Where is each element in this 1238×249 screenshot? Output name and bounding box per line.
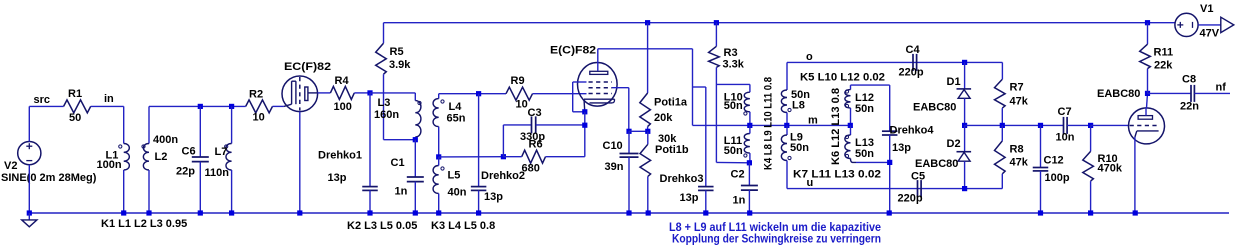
inductor L8 xyxy=(786,62,788,90)
ground (rotated) xyxy=(1221,17,1234,32)
potentiometer Poti1a xyxy=(645,20,650,25)
svg-text:src: src xyxy=(34,94,51,106)
svg-text:Drehko3: Drehko3 xyxy=(660,173,704,185)
svg-text:R2: R2 xyxy=(249,89,263,101)
inductor L11 xyxy=(744,134,750,154)
svg-text:R11: R11 xyxy=(1154,47,1174,59)
capacitor C6 xyxy=(198,104,203,109)
svg-text:20k: 20k xyxy=(654,112,673,124)
svg-text:L4: L4 xyxy=(449,101,463,113)
wire screen g2 to C10 xyxy=(612,87,629,89)
svg-text:220p: 220p xyxy=(898,193,923,205)
svg-text:39n: 39n xyxy=(605,161,624,173)
svg-text:C5: C5 xyxy=(911,171,925,183)
svg-text:nf: nf xyxy=(1216,82,1227,94)
svg-text:C7: C7 xyxy=(1058,106,1072,118)
capacitor C8 xyxy=(1148,92,1192,94)
svg-text:10: 10 xyxy=(253,112,265,124)
node nf xyxy=(1145,91,1150,96)
svg-text:1n: 1n xyxy=(395,186,408,198)
svg-text:K6 L12 L13 0.8: K6 L12 L13 0.8 xyxy=(830,88,842,165)
svg-text:m: m xyxy=(808,115,818,127)
svg-text:C3: C3 xyxy=(528,107,542,119)
svg-text:3.3k: 3.3k xyxy=(723,59,745,71)
capacitor C1 xyxy=(414,140,416,177)
svg-text:C12: C12 xyxy=(1044,155,1064,167)
resistor R1 xyxy=(64,100,91,113)
inductor L10 xyxy=(749,84,751,92)
svg-text:220p: 220p xyxy=(899,67,924,79)
wire to poti wiper xyxy=(629,130,648,132)
svg-text:in: in xyxy=(104,93,114,105)
svg-text:50n: 50n xyxy=(724,100,743,112)
resistor R10 xyxy=(1088,123,1093,128)
svg-text:13p: 13p xyxy=(680,192,699,204)
wire L13 bottom to Drehko4 xyxy=(851,159,857,163)
node L4-L5 tap xyxy=(436,154,441,159)
wire tube3 cathode to ground xyxy=(1134,137,1136,213)
svg-text:K2 L3 L5 0.05: K2 L3 L5 0.05 xyxy=(347,220,417,232)
potentiometer Poti1b xyxy=(647,131,649,144)
wire to L11 bottom xyxy=(716,161,749,163)
variable capacitor Drehko1 xyxy=(369,93,371,187)
node R6/C3 left xyxy=(501,154,506,159)
wire R9 to tube2 grid xyxy=(533,93,587,95)
tube3 plate wire xyxy=(1145,108,1147,116)
o line xyxy=(787,61,1002,63)
source V2 xyxy=(18,142,41,165)
svg-text:L7: L7 xyxy=(215,146,228,158)
node D2/u xyxy=(962,186,967,191)
svg-text:V2: V2 xyxy=(4,160,17,172)
resistor R4 xyxy=(330,86,354,99)
inductor L3 xyxy=(414,93,416,101)
svg-text:C10: C10 xyxy=(603,140,623,152)
svg-text:R1: R1 xyxy=(68,88,82,100)
node L11 bottom / C2 xyxy=(747,160,752,165)
svg-text:K1 L1 L2 L3 0.95: K1 L1 L2 L3 0.95 xyxy=(101,218,187,230)
resistor R2 xyxy=(246,100,273,113)
svg-text:C8: C8 xyxy=(1182,74,1196,86)
svg-text:Drehko2: Drehko2 xyxy=(481,170,525,182)
svg-text:50n: 50n xyxy=(855,103,874,115)
resistor R7 xyxy=(995,79,1006,108)
svg-text:R4: R4 xyxy=(335,75,350,87)
variable capacitor Drehko2 xyxy=(476,91,481,96)
wire cathode down to R6/C3 xyxy=(584,112,586,157)
svg-text:100n: 100n xyxy=(97,159,122,171)
wire R2 to tube xyxy=(273,105,284,107)
u line xyxy=(787,188,1002,190)
capacitor C10 xyxy=(628,131,630,153)
svg-text:R3: R3 xyxy=(724,47,738,59)
variable capacitor Drehko4 xyxy=(889,85,891,131)
svg-text:3.9k: 3.9k xyxy=(389,59,411,71)
svg-text:C2: C2 xyxy=(731,169,745,181)
node screen/C10 xyxy=(626,129,631,134)
svg-text:50: 50 xyxy=(69,112,81,124)
svg-text:R8: R8 xyxy=(1010,144,1024,156)
inductor L4 xyxy=(438,94,440,99)
svg-text:SINE(0 2m 28Meg): SINE(0 2m 28Meg) xyxy=(1,172,97,184)
svg-text:K4 L8 L9 L10 L11 0.8: K4 L8 L9 L10 L11 0.8 xyxy=(763,77,775,170)
resistor R5 xyxy=(383,23,385,44)
svg-text:L5: L5 xyxy=(448,170,461,182)
wire plate to R4 xyxy=(318,92,331,94)
svg-text:22k: 22k xyxy=(1154,60,1173,72)
svg-text:110n: 110n xyxy=(205,167,230,179)
wire tank2 top xyxy=(439,93,506,95)
svg-text:EABC80: EABC80 xyxy=(1097,88,1140,100)
inductor L5 xyxy=(433,166,439,194)
inductor L7 xyxy=(229,104,234,109)
svg-text:o: o xyxy=(806,51,813,63)
svg-text:L8: L8 xyxy=(792,100,805,112)
wire R5 bottom to L3 bottom xyxy=(384,139,416,141)
svg-text:47k: 47k xyxy=(1010,96,1029,108)
wire V2 bottom xyxy=(28,165,30,213)
svg-text:47k: 47k xyxy=(1010,157,1029,169)
diode D2 xyxy=(964,125,966,151)
svg-text:EABC80: EABC80 xyxy=(915,158,958,170)
svg-text:13p: 13p xyxy=(328,172,347,184)
node cathode2 xyxy=(582,109,587,114)
svg-text:100: 100 xyxy=(334,101,352,113)
svg-text:EC(F)82: EC(F)82 xyxy=(284,61,331,73)
svg-text:V1: V1 xyxy=(1200,3,1213,15)
wire grid tube3 xyxy=(1091,124,1129,126)
variable capacitor Drehko3 xyxy=(693,86,706,88)
resistor R6 xyxy=(522,150,546,163)
svg-text:470k: 470k xyxy=(1098,163,1123,175)
wire V1 right to ground xyxy=(1198,24,1221,26)
inductor L13 xyxy=(850,125,852,135)
svg-text:100p: 100p xyxy=(1045,172,1070,184)
svg-text:50n: 50n xyxy=(790,142,809,154)
svg-text:D2: D2 xyxy=(947,138,961,150)
svg-text:L2: L2 xyxy=(155,151,168,163)
svg-text:10n: 10n xyxy=(1056,131,1075,143)
svg-text:13p: 13p xyxy=(484,191,503,203)
node wiper xyxy=(645,129,650,134)
svg-text:Drehko1: Drehko1 xyxy=(318,150,362,162)
resistor R11 xyxy=(1145,20,1150,25)
capacitor C3 xyxy=(502,125,504,157)
svg-text:400n: 400n xyxy=(153,134,178,146)
capacitor C7 xyxy=(1063,117,1065,134)
node D1/D2 xyxy=(962,123,967,128)
svg-text:R5: R5 xyxy=(390,46,404,58)
node L8/L9 tap xyxy=(784,123,789,128)
capacitor C2 xyxy=(748,163,750,186)
wire R4 to node xyxy=(354,92,370,94)
svg-text:E(C)F82: E(C)F82 xyxy=(550,45,596,57)
wire tap to R6/C3 xyxy=(439,156,504,158)
svg-text:Kopplung der Schwingkreise zu: Kopplung der Schwingkreise zu verringern xyxy=(672,232,881,246)
m line from plate xyxy=(693,124,851,126)
wire V2 top to R1 xyxy=(28,106,30,141)
node R7/R8 xyxy=(1000,123,1005,128)
tube2 cathode xyxy=(584,98,615,100)
inductor L2 xyxy=(148,106,150,143)
svg-text:10: 10 xyxy=(516,99,528,111)
svg-text:Poti1b: Poti1b xyxy=(655,144,689,156)
svg-text:50n: 50n xyxy=(855,148,874,160)
svg-text:L3: L3 xyxy=(378,97,391,109)
svg-text:13p: 13p xyxy=(892,142,911,154)
inductor L12 xyxy=(850,85,852,90)
resistor R3 xyxy=(714,20,719,25)
node tank2 tap (m end) xyxy=(848,123,853,128)
svg-text:Drehko4: Drehko4 xyxy=(890,125,935,137)
svg-text:R7: R7 xyxy=(1010,82,1024,94)
wire g3 to cathode xyxy=(573,81,587,83)
node Drehko4/L13 xyxy=(887,160,892,165)
m line right part xyxy=(965,124,1064,126)
svg-text:K7 L11 L13 0.02: K7 L11 L13 0.02 xyxy=(793,169,881,181)
svg-text:Poti1a: Poti1a xyxy=(654,97,688,109)
triode U1 EC(F)82 xyxy=(282,76,318,112)
svg-text:C6: C6 xyxy=(182,146,196,158)
pentode U2 E(C)F82 xyxy=(578,63,618,107)
triode U3 EABC80 xyxy=(1129,108,1165,144)
svg-text:22n: 22n xyxy=(1180,101,1199,113)
bottom ground rail xyxy=(29,212,1229,214)
resistor R8 xyxy=(995,141,1006,174)
svg-text:50n: 50n xyxy=(724,145,743,157)
tube2 grid rows xyxy=(589,81,613,83)
svg-text:47V: 47V xyxy=(1200,28,1220,40)
svg-text:D1: D1 xyxy=(947,76,961,88)
svg-text:160n: 160n xyxy=(374,109,399,121)
svg-text:22p: 22p xyxy=(176,166,195,178)
ground xyxy=(28,213,30,220)
node in xyxy=(91,105,124,107)
svg-text:680: 680 xyxy=(522,163,540,175)
inductor L1 xyxy=(123,106,125,143)
svg-text:K5 L10 L12 0.02: K5 L10 L12 0.02 xyxy=(800,72,885,84)
svg-text:40n: 40n xyxy=(448,187,467,199)
tube2 plate wire xyxy=(597,49,599,71)
inductor L9 xyxy=(786,125,788,135)
capacitor C4 xyxy=(912,54,914,71)
resistor R9 xyxy=(506,87,533,100)
svg-text:K3 L4 L5 0.8: K3 L4 L5 0.8 xyxy=(431,220,495,232)
node tank1 tap xyxy=(747,123,752,128)
svg-text:330p: 330p xyxy=(520,131,545,143)
source V1 xyxy=(1175,13,1198,36)
svg-text:1n: 1n xyxy=(733,195,746,207)
diode D1 xyxy=(962,60,967,65)
node plate1 / wire to L3 xyxy=(367,90,372,95)
wire tank2 top xyxy=(851,84,890,86)
svg-text:C4: C4 xyxy=(906,44,921,56)
svg-text:R9: R9 xyxy=(511,75,525,87)
svg-text:C1: C1 xyxy=(391,157,405,169)
wire tube1 grid to ground xyxy=(299,112,301,213)
capacitor C5 xyxy=(917,180,919,197)
top supply rail xyxy=(384,22,1175,24)
capacitor C12 xyxy=(1038,123,1043,128)
wire R3 node to tank1 top xyxy=(716,83,750,85)
wire secondary tank top xyxy=(149,105,246,107)
svg-text:65n: 65n xyxy=(447,113,466,125)
svg-text:EABC80: EABC80 xyxy=(913,102,956,114)
